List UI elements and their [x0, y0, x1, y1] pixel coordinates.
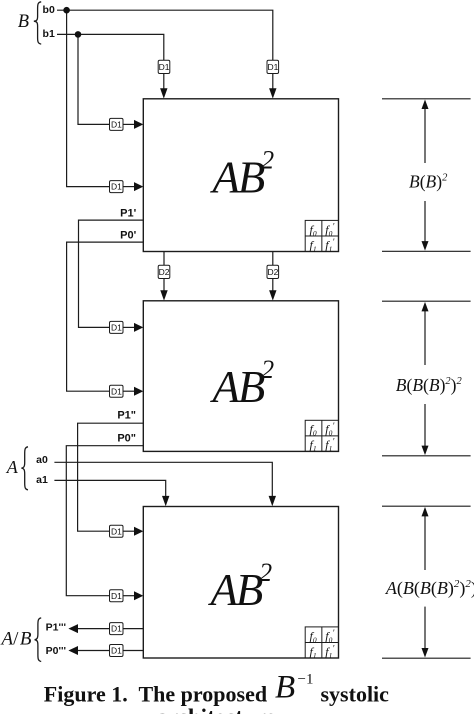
svg-text:a1: a1 [36, 474, 48, 486]
svg-text:b1: b1 [43, 28, 55, 40]
svg-text:B(B(B)2)2: B(B(B)2)2 [396, 375, 463, 395]
svg-text:A: A [6, 457, 19, 477]
svg-text:D1: D1 [111, 624, 122, 634]
svg-text:D1: D1 [111, 323, 122, 333]
svg-text:P1': P1' [120, 207, 136, 219]
svg-text:A(B(B(B)2)2)2: A(B(B(B)2)2)2 [385, 578, 474, 599]
svg-text:f1: f1 [310, 238, 317, 254]
svg-text:D1: D1 [111, 386, 122, 396]
svg-text:D1: D1 [111, 646, 122, 656]
svg-text:f0: f0 [310, 422, 317, 438]
svg-text:f0': f0' [325, 221, 335, 238]
svg-text:Figure 1.: Figure 1. [44, 681, 128, 706]
svg-text:The proposed: The proposed [139, 681, 268, 706]
svg-text:f0': f0' [325, 628, 335, 645]
svg-text:AB2: AB2 [210, 146, 275, 203]
svg-text:A/B: A/B [0, 629, 32, 650]
svg-text:P1": P1" [117, 410, 136, 422]
svg-text:f1: f1 [310, 644, 317, 660]
svg-text:D1: D1 [159, 62, 170, 72]
svg-text:architecture: architecture [156, 705, 275, 714]
svg-text:D1: D1 [111, 591, 122, 601]
svg-text:D2: D2 [159, 267, 170, 277]
svg-text:D1: D1 [111, 120, 122, 130]
svg-text:systolic: systolic [321, 681, 390, 706]
svg-text:P1''': P1''' [46, 622, 66, 634]
svg-text:P0": P0" [117, 433, 136, 445]
svg-text:f0: f0 [310, 222, 317, 238]
svg-text:b0: b0 [43, 4, 55, 16]
svg-text:AB2: AB2 [208, 558, 273, 615]
svg-text:P0''': P0''' [46, 645, 66, 657]
svg-text:−1: −1 [298, 672, 314, 688]
svg-text:D2: D2 [267, 267, 278, 277]
svg-text:D1: D1 [111, 182, 122, 192]
svg-text:a0: a0 [36, 454, 48, 466]
svg-text:f0': f0' [325, 421, 335, 438]
svg-text:B(B)2: B(B)2 [409, 172, 448, 192]
svg-text:D1: D1 [111, 526, 122, 536]
svg-text:D1: D1 [267, 62, 278, 72]
svg-text:P0': P0' [120, 229, 136, 241]
svg-text:AB2: AB2 [210, 355, 275, 412]
svg-text:f1: f1 [310, 438, 317, 454]
svg-text:f0: f0 [310, 629, 317, 645]
svg-text:B: B [275, 670, 295, 706]
svg-text:B: B [18, 12, 29, 32]
